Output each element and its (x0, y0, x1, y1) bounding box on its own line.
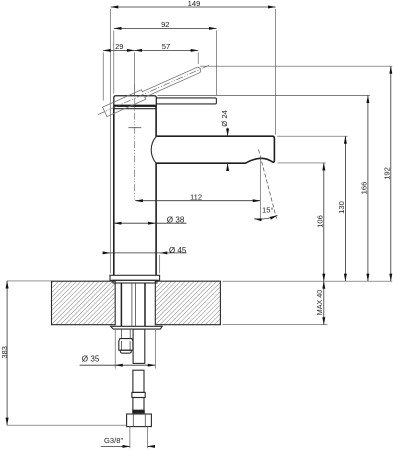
hole extension line left (114, 330, 116, 369)
dimension 29 line (103, 42, 134, 51)
svg-text:MAX 40: MAX 40 (315, 290, 324, 316)
svg-text:15°: 15° (262, 205, 273, 214)
extension line 383 top (7, 280, 51, 282)
countertop slab hatched right (155, 281, 220, 325)
svg-text:192: 192 (383, 167, 392, 180)
phantom lever raised centerline (98, 65, 211, 115)
extension line 166 (cap top to right) (158, 95, 370, 97)
extension line 149 right (to spout tip) (275, 9, 277, 135)
faucet body right edge lower (155, 163, 157, 275)
thread extension line left (129, 427, 131, 449)
svg-text:29: 29 (115, 42, 123, 51)
extension line 29 left (102, 52, 104, 100)
dimension G3/8 line (101, 436, 155, 447)
svg-text:383: 383 (0, 346, 9, 358)
faucet vertical centerline (134, 84, 136, 200)
hole extension line right (154, 330, 156, 369)
extension line D45 right (159, 255, 161, 273)
extension line 92 right (215, 31, 217, 96)
supply hose upper segment (133, 329, 145, 363)
shank stud left edge in hole (120, 283, 122, 326)
spout outline (156, 136, 274, 163)
extension line 29/57 middle (134, 52, 136, 99)
countertop slab hatched left (52, 281, 116, 325)
svg-text:149: 149 (188, 0, 201, 8)
extension line 57 right (197, 52, 199, 64)
svg-text:Ø 45: Ø 45 (169, 246, 187, 255)
extension line spout bottom right (106) (278, 162, 326, 164)
shank inner line b (135, 283, 137, 326)
angle 15 deg reference vertical line (259, 159, 261, 221)
dimension D24 top arrow (227, 128, 229, 136)
svg-text:166: 166 (360, 182, 369, 195)
extension line 192 top (phantom tip to right) (200, 65, 392, 67)
svg-text:92: 92 (161, 20, 169, 29)
supply hose lower segment (133, 370, 144, 392)
mounting nut bottom cap (120, 350, 131, 353)
shank stud right edge in hole (144, 283, 146, 326)
faucet body left edge (113, 106, 115, 275)
svg-text:Ø 35: Ø 35 (82, 354, 100, 363)
extension line 92 left (113, 31, 115, 94)
base flange plate (110, 275, 160, 280)
washer under counter (111, 326, 163, 329)
base flange skirt (113, 280, 157, 283)
dimension 192 vertical (383, 66, 392, 281)
svg-text:Ø 38: Ø 38 (167, 215, 185, 224)
svg-text:57: 57 (162, 42, 170, 51)
hose connection nut G3/8 (127, 414, 152, 427)
dimension 112 line (135, 193, 260, 202)
spout-body fillet arc (151, 137, 156, 164)
threaded stud below washer (120, 329, 122, 339)
mounting nut (119, 339, 133, 351)
dimension 149 line (111, 0, 276, 8)
dimension D35 line (80, 354, 156, 365)
faucet body right edge upper (155, 106, 157, 136)
dimension 92 line (114, 20, 216, 29)
extension line slab bottom right (223, 324, 328, 326)
cap bottom shadow band (114, 105, 156, 107)
extension line slab top right (223, 280, 393, 282)
dimension D45 line (103, 246, 187, 255)
extension line spout top right (130) (277, 135, 348, 137)
svg-text:112: 112 (190, 193, 202, 202)
thread extension line right (147, 427, 149, 449)
hose ferrule band (132, 410, 145, 413)
shank inner line a (131, 283, 133, 326)
extension line 383 bottom leader (7, 424, 127, 426)
dimension 57 line (135, 42, 199, 51)
lever cap (cartridge cover) (114, 96, 157, 106)
center cross tick (128, 127, 141, 129)
dimension 383 vertical line (0, 281, 9, 425)
svg-text:130: 130 (337, 201, 346, 214)
hose collar band (132, 392, 145, 397)
dimension MAX 40 vertical (315, 281, 324, 325)
extension line 149 left (109, 9, 111, 274)
svg-text:Ø 24: Ø 24 (220, 110, 229, 126)
dimension 106 vertical (316, 163, 325, 281)
cap lower joint line (114, 108, 156, 110)
lever handle stick (156, 98, 216, 104)
phantom lever raised rod outline (103, 67, 201, 116)
angle 15 deg slanted dashed line (259, 150, 277, 219)
dimension 166 vertical (360, 96, 369, 282)
svg-text:G3/8": G3/8" (104, 436, 123, 445)
svg-text:106: 106 (316, 215, 325, 228)
dimension 130 vertical (337, 136, 346, 281)
dimension D38 line (114, 215, 187, 224)
angle 15 deg arc with arrows (254, 215, 277, 219)
dimension D24 bottom arrow (227, 163, 229, 169)
